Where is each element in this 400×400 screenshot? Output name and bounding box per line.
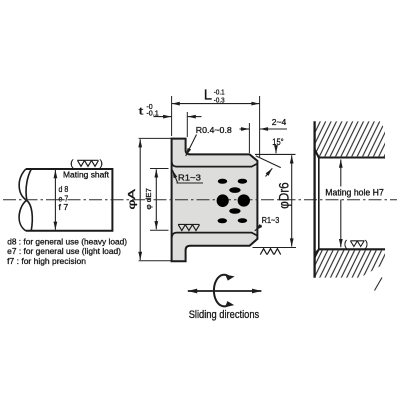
mating hole dimension [340, 160, 342, 187]
shaft diameter dimension arrow [54, 170, 56, 230]
housing stray hatch line [375, 278, 383, 291]
svg-text:-0.1: -0.1 [214, 90, 225, 97]
svg-text:R1~3: R1~3 [262, 216, 280, 225]
surface finish above shaft (vvv) [77, 160, 98, 166]
housing hatched bottom block [315, 250, 385, 277]
phi dE7 dimension [150, 168, 169, 170]
bore top line with entry radius [172, 162, 257, 166]
svg-text:): ) [100, 158, 103, 169]
svg-text:R0.4~0.8: R0.4~0.8 [196, 125, 232, 135]
svg-text:): ) [365, 239, 368, 249]
bore bottom line with entry radius [172, 233, 257, 238]
graphite plugs [217, 179, 250, 224]
phi A dimension [139, 137, 175, 139]
svg-text:-0.1: -0.1 [146, 110, 159, 117]
svg-text:f7 : for high precision: f7 : for high precision [7, 256, 86, 266]
L dimension [171, 96, 173, 136]
svg-text:φ dE7: φ dE7 [144, 188, 153, 209]
hole bottom face [315, 249, 385, 257]
15 degree chamfer angle [255, 153, 296, 155]
svg-text:Sliding directions: Sliding directions [189, 309, 260, 321]
surface finish (vv) in hole [350, 241, 364, 247]
finish triangles below Dr6 line [260, 249, 280, 255]
svg-text:e7 : for general use (light lo: e7 : for general use (light load) [7, 246, 121, 256]
t dimension [186, 112, 188, 137]
phi Dr6 dimension [253, 247, 297, 249]
centerline [3, 199, 397, 201]
svg-text:t: t [139, 106, 144, 118]
svg-text:d8 : for general use (heavy lo: d8 : for general use (heavy load) [7, 237, 127, 247]
shaft body [19, 169, 112, 231]
housing left face [313, 121, 315, 277]
sliding directions arrow [188, 290, 262, 292]
hole top face [315, 150, 385, 158]
svg-text:f 7: f 7 [59, 202, 69, 212]
svg-text:15°: 15° [272, 137, 284, 147]
bore surface finish triangles [178, 224, 200, 230]
svg-text:φDr6: φDr6 [276, 182, 291, 209]
rotation arc [214, 275, 230, 307]
bushing section body [172, 139, 258, 262]
svg-text:Mating hole H7: Mating hole H7 [325, 188, 384, 198]
svg-text:Mating shaft: Mating shaft [63, 170, 110, 180]
2~4 chamfer dimension [248, 123, 250, 153]
svg-text:2~4: 2~4 [272, 117, 287, 127]
housing hatched top block [315, 121, 385, 156]
svg-text:R1~3: R1~3 [178, 172, 201, 182]
svg-text:(: ( [344, 239, 347, 249]
svg-text:-0.3: -0.3 [214, 97, 225, 104]
hole far side line [318, 158, 320, 250]
svg-text:L: L [204, 87, 212, 104]
